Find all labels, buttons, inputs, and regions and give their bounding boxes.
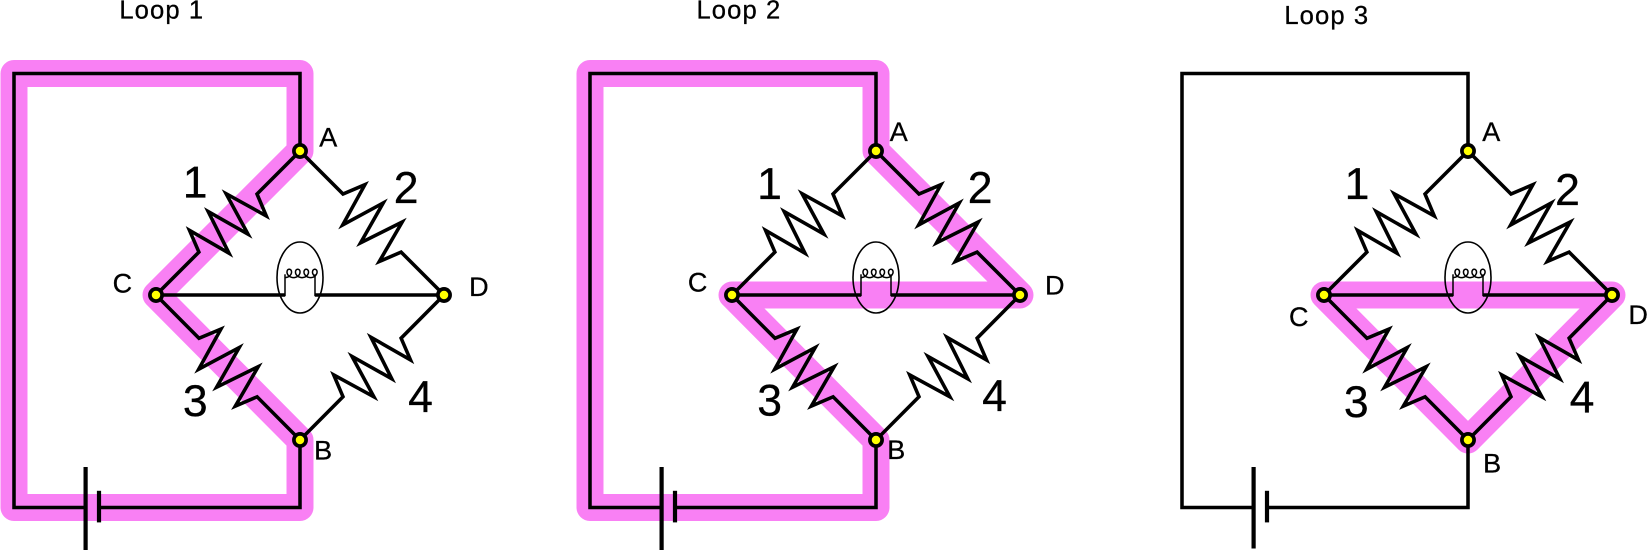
resistor 2: [1468, 151, 1612, 295]
resistor 2: [300, 151, 444, 295]
wire: A up, top side, left side, bottom to battery: [590, 74, 876, 508]
resistor 4: [876, 295, 1020, 440]
node D (junction dot): [1014, 289, 1026, 301]
svg-text:A: A: [1482, 117, 1500, 147]
svg-text:3: 3: [757, 376, 782, 425]
svg-text:D: D: [1628, 300, 1647, 330]
node B (junction dot): [870, 434, 882, 446]
svg-text:B: B: [1483, 448, 1501, 478]
node D (junction dot): [1606, 289, 1618, 301]
node B (junction dot): [294, 434, 306, 446]
node B (junction dot): [1462, 434, 1474, 446]
svg-text:Loop 2: Loop 2: [696, 0, 781, 25]
battery (short plate, negative): [1265, 491, 1269, 523]
svg-text:B: B: [887, 435, 905, 465]
battery (short plate, negative): [673, 491, 677, 523]
wire: battery to bottom-right corner, up to node B: [675, 440, 876, 508]
circuit panel Loop 1: [14, 0, 489, 550]
node C (junction dot): [1318, 289, 1330, 301]
svg-text:3: 3: [1344, 378, 1369, 427]
svg-text:2: 2: [968, 164, 993, 213]
wire: node C to lamp: [732, 293, 861, 297]
lamp filament coil: [1453, 269, 1485, 277]
svg-text:3: 3: [183, 377, 208, 426]
svg-text:4: 4: [982, 372, 1007, 421]
resistor 3: [1324, 295, 1468, 440]
wire: A up, top side, left side, bottom to battery: [1182, 74, 1468, 508]
resistor 1: [732, 151, 876, 295]
svg-text:C: C: [688, 268, 708, 298]
svg-text:C: C: [1289, 302, 1309, 332]
svg-text:2: 2: [394, 164, 419, 213]
svg-text:D: D: [1045, 271, 1065, 301]
node D (junction dot): [438, 289, 450, 301]
wire: node C to lamp: [156, 293, 285, 297]
node C (junction dot): [150, 289, 162, 301]
svg-text:C: C: [113, 269, 133, 299]
wire: battery to bottom-right corner, up to node B: [99, 440, 300, 508]
circuit panel Loop 2: [590, 0, 1065, 551]
svg-text:4: 4: [1570, 374, 1595, 423]
resistor 2: [876, 151, 1020, 295]
svg-text:4: 4: [408, 373, 433, 422]
node A (junction dot): [1462, 145, 1474, 157]
wire: lamp to node D: [1483, 293, 1612, 297]
resistor 1: [156, 151, 300, 295]
resistor 4: [300, 295, 444, 440]
svg-text:D: D: [469, 272, 489, 302]
lamp filament coil: [285, 269, 317, 277]
lamp lead left: [1452, 274, 1454, 296]
svg-text:Loop 1: Loop 1: [119, 0, 204, 24]
wire: battery to bottom-right corner, up to node B: [1267, 440, 1468, 508]
resistor 3: [156, 295, 300, 440]
svg-text:1: 1: [183, 159, 208, 208]
resistor 4: [1468, 295, 1612, 440]
battery (long plate, positive): [659, 467, 663, 551]
battery (short plate, negative): [97, 491, 101, 523]
lamp (galvanometer bulb) envelope: [277, 242, 323, 313]
svg-text:2: 2: [1555, 166, 1580, 215]
lamp lead right: [314, 274, 316, 296]
svg-text:1: 1: [1345, 160, 1370, 209]
node A (junction dot): [294, 145, 306, 157]
wire: lamp to node D: [891, 293, 1020, 297]
resistor 3: [732, 295, 876, 440]
lamp lead right: [890, 274, 892, 296]
svg-text:A: A: [319, 122, 337, 152]
circuit panel Loop 3: [1182, 2, 1647, 549]
svg-text:Loop 3: Loop 3: [1284, 2, 1369, 30]
lamp (galvanometer bulb) envelope: [853, 242, 899, 313]
resistor 1: [1324, 151, 1468, 295]
wire: node C to lamp: [1324, 293, 1453, 297]
highlighted loop 1 path (pink): [14, 74, 300, 508]
svg-text:1: 1: [757, 160, 782, 209]
highlighted loop 3 path (pink): [1324, 295, 1612, 440]
lamp lead left: [284, 274, 286, 296]
lamp (galvanometer bulb) envelope: [1445, 242, 1491, 313]
battery (long plate, positive): [83, 467, 87, 551]
lamp lead left: [860, 274, 862, 296]
node C (junction dot): [726, 289, 738, 301]
wire: lamp to node D: [315, 293, 444, 297]
lamp lead right: [1482, 274, 1484, 296]
battery (long plate, positive): [1251, 467, 1255, 549]
wire: A up, top side, left side, bottom to battery: [14, 74, 300, 508]
svg-text:B: B: [314, 436, 332, 466]
highlighted loop 2 path (pink): [590, 74, 1020, 508]
node A (junction dot): [870, 145, 882, 157]
svg-text:A: A: [890, 117, 908, 147]
lamp filament coil: [861, 269, 893, 277]
